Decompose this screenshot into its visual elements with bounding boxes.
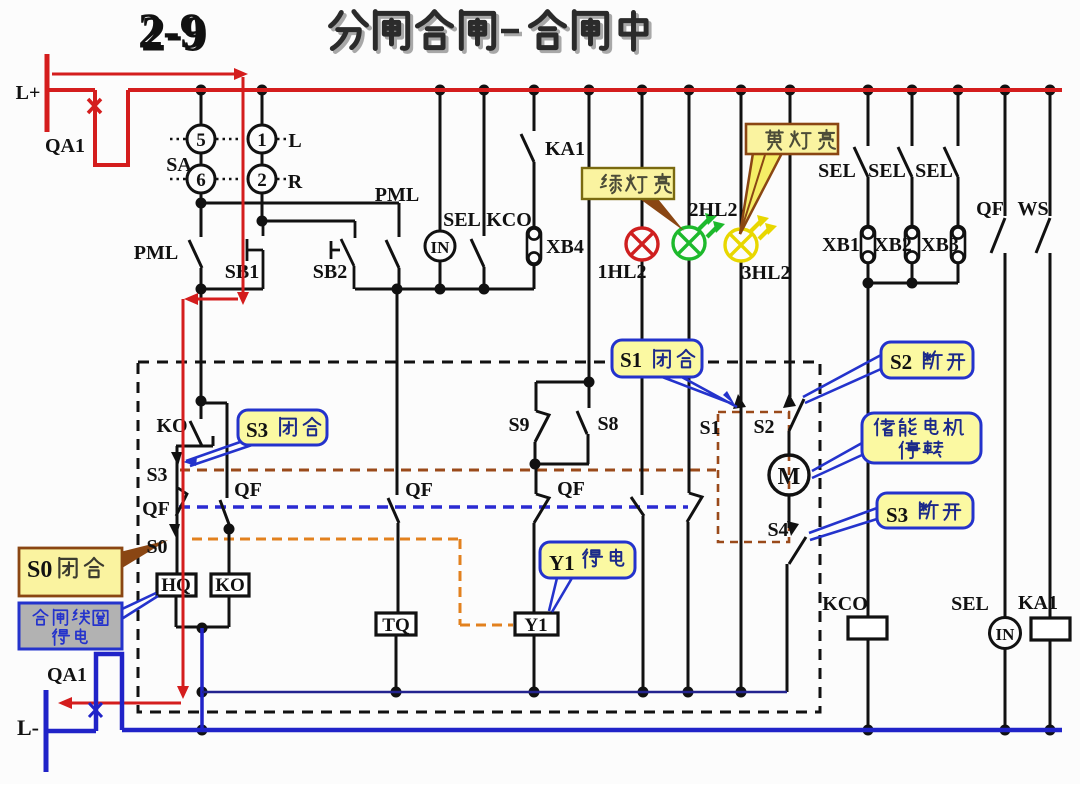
svg-text:PML: PML <box>375 184 419 206</box>
wire node6 to PML right <box>201 202 399 205</box>
svg-text:S1: S1 <box>699 417 720 439</box>
svg-text:M: M <box>778 464 801 490</box>
selector SA contact 6 <box>187 165 215 193</box>
svg-text:KO: KO <box>215 575 245 596</box>
svg-text:S0: S0 <box>27 557 52 583</box>
wire L- bus (blue) <box>122 728 1062 733</box>
selector SA contact 2 <box>248 165 276 193</box>
contact SEL 3 <box>944 90 958 225</box>
wire coil return link (blue) <box>200 628 204 730</box>
lamp 3HL2 (yellow, lit) <box>725 215 777 261</box>
svg-text:SA: SA <box>166 154 192 176</box>
svg-text:XB1: XB1 <box>822 234 860 256</box>
coil KCO <box>848 617 887 639</box>
contact PML left <box>189 203 202 289</box>
svg-text:IN: IN <box>431 238 451 257</box>
svg-text:L-: L- <box>17 715 39 740</box>
svg-text:KA1: KA1 <box>1018 592 1058 614</box>
coil KA1 <box>1031 618 1070 640</box>
wire 1-2 <box>261 153 264 165</box>
arrowhead S2 marker <box>783 393 796 408</box>
contact KO (aux) <box>190 401 202 446</box>
indicator IN (SEL right) <box>990 618 1021 649</box>
svg-text:QF: QF <box>976 198 1004 220</box>
svg-text:KCO: KCO <box>486 209 532 231</box>
svg-text:5: 5 <box>196 130 206 151</box>
arrowhead S1 closed marker <box>733 394 746 409</box>
brown dashed box (S1/S2 group) <box>718 412 789 542</box>
callout S2断开 <box>803 355 881 403</box>
fuse link XB2 <box>905 226 919 263</box>
wire KO coil branch top <box>201 403 227 498</box>
svg-text:S9: S9 <box>508 414 529 436</box>
wire S9 feed column <box>588 90 591 382</box>
blue dashed link QF row <box>179 505 688 508</box>
svg-text:TQ: TQ <box>382 615 409 636</box>
contact QF (HQ column, closed kink) <box>176 488 187 516</box>
wire red current arrow to QA1 (bottom) <box>70 702 181 705</box>
wire bus to SA circle 5 <box>200 90 203 125</box>
contact S4 (open) <box>787 537 806 692</box>
svg-text:SEL: SEL <box>915 160 953 182</box>
selector SA contact 5 <box>187 125 215 153</box>
svg-text:QF: QF <box>142 498 170 520</box>
svg-text:XB4: XB4 <box>546 236 584 258</box>
contact QF (Y1 column, closed) <box>534 464 549 613</box>
svg-text:KA1: KA1 <box>545 138 585 160</box>
svg-text:XB2: XB2 <box>874 234 912 256</box>
wire S9/S8 bottom bar <box>535 463 589 466</box>
svg-text:6: 6 <box>196 170 206 191</box>
svg-text:S1: S1 <box>620 348 642 372</box>
wire 6 down <box>200 193 203 203</box>
svg-text:3HL2: 3HL2 <box>742 262 791 284</box>
pushbutton SB1 <box>247 221 263 289</box>
breaker QA1 (bottom, blue detour) <box>96 654 122 731</box>
wire red current down to HQ coil <box>182 299 185 688</box>
callout S0闭合 <box>120 540 168 568</box>
red X mark on QA1 <box>88 99 101 113</box>
svg-text:S2: S2 <box>890 350 912 374</box>
svg-text:1HL2: 1HL2 <box>598 261 647 283</box>
callout 合闸线圈得电 <box>120 593 158 620</box>
wire PML bottom into sealed box <box>200 289 203 401</box>
contact QF (TQ column) <box>388 498 399 523</box>
svg-text:SB2: SB2 <box>313 261 347 283</box>
fuse link XB1 <box>861 226 875 263</box>
wire red current elbow to left column <box>190 298 238 301</box>
callout S3闭合 <box>186 441 252 466</box>
wire bottom junction rail <box>202 691 787 694</box>
svg-text:QF: QF <box>557 478 585 500</box>
wire 2HL2 down <box>688 259 691 493</box>
svg-text:QA1: QA1 <box>45 135 85 157</box>
svg-text:XB3: XB3 <box>921 234 959 256</box>
contact WS <box>1036 90 1050 618</box>
svg-text:SEL: SEL <box>443 209 481 231</box>
wire bus to S2 <box>789 90 792 397</box>
brown dashed link S3 row <box>180 469 716 472</box>
wire SB2..XB4 bottom rail <box>355 288 534 291</box>
svg-text:S8: S8 <box>597 413 618 435</box>
junction dots mid <box>196 198 207 209</box>
contact SEL 2 <box>898 90 912 225</box>
arrowhead S4 marker <box>787 521 799 536</box>
wire red current arrow (top) <box>52 73 234 76</box>
contact S9 (closed) <box>535 411 549 464</box>
svg-text:QF: QF <box>405 479 433 501</box>
svg-text:Y1: Y1 <box>549 551 575 575</box>
wire bus to lamp 1HL2 <box>641 90 644 228</box>
wire node2 to SB2 <box>262 220 355 223</box>
svg-text:S3: S3 <box>246 418 268 442</box>
junction dots bottom <box>197 623 208 634</box>
wire HQ/KO bottom bar <box>176 626 229 629</box>
SA dotted link row R <box>170 178 287 181</box>
callout S1闭合 <box>657 375 737 407</box>
wire M to S4 <box>788 495 791 528</box>
svg-text:IN: IN <box>996 625 1016 644</box>
callout 储能电机停转 <box>812 443 862 478</box>
fuse link XB3 <box>951 226 965 263</box>
svg-text:PML: PML <box>134 242 178 264</box>
svg-text:L: L <box>288 130 301 152</box>
svg-text:QF: QF <box>234 479 262 501</box>
wire SB1/PML bottom <box>201 288 263 291</box>
wire bus to lamp IN <box>439 90 442 231</box>
contact PML right <box>386 203 399 289</box>
wire 2 down <box>261 193 264 221</box>
svg-text:SEL: SEL <box>951 593 989 615</box>
lamp 2HL2 (green, lit) <box>673 213 725 259</box>
svg-text:L+: L+ <box>16 82 41 104</box>
junction dots top bus <box>196 85 207 96</box>
wire L+ to QA1 <box>47 88 95 92</box>
svg-text:KCO: KCO <box>822 593 868 615</box>
node L- terminal stub <box>44 690 49 772</box>
selector SA contact 1 <box>248 125 276 153</box>
svg-text:S4: S4 <box>767 519 788 541</box>
contact S3 (closed, arrow) <box>176 446 179 574</box>
wire 5-6 <box>200 153 203 165</box>
orange dashed link S0 to Y1 <box>192 539 513 625</box>
wire Y1 coil to junction <box>533 635 536 692</box>
contact QF (1HL2 column, open) <box>631 497 644 692</box>
wire bus to SA circle 1 <box>261 90 264 125</box>
coil HQ <box>157 574 196 596</box>
callout Y1得电 <box>549 578 572 612</box>
breaker QA1 (top, red detour) <box>95 90 128 165</box>
svg-text:SEL: SEL <box>868 160 906 182</box>
wire TQ column <box>396 289 399 495</box>
svg-text:S3: S3 <box>146 464 167 486</box>
wire bus to lamp 3HL2 <box>740 90 743 229</box>
contact QF (2HL2 column, closed) <box>687 493 702 692</box>
svg-text:WS: WS <box>1017 198 1048 220</box>
contact SEL 1 <box>854 90 868 225</box>
SA dotted link row L <box>170 138 287 141</box>
wire S9/S8 top bar <box>536 382 589 411</box>
svg-text:HQ: HQ <box>161 575 191 596</box>
svg-text:2: 2 <box>257 170 267 191</box>
callout 绿灯亮 <box>640 199 684 231</box>
contact S2 (open) <box>789 399 804 455</box>
callout 黄灯亮 <box>740 153 782 234</box>
contact S1 (closed) wire down <box>740 261 743 692</box>
svg-text:R: R <box>288 171 303 193</box>
callout S3断开 <box>809 508 877 540</box>
coil Y1 <box>515 613 558 635</box>
wire bus to lamp 2HL2 <box>688 90 691 227</box>
lamp 1HL2 (red) <box>626 228 658 260</box>
svg-text:2-9: 2-9 <box>138 2 205 58</box>
motor M <box>769 455 809 495</box>
contact SEL (KCO column) <box>471 90 484 289</box>
blue X mark on QA1 <box>89 701 102 719</box>
contact QF (KO column, open) <box>220 500 230 574</box>
node L+ terminal stub <box>45 54 50 132</box>
indicator IN (SEL) <box>425 231 455 261</box>
wire L- to QA1 <box>46 729 96 734</box>
fuse link XB4 <box>527 227 541 265</box>
svg-text:S3: S3 <box>886 503 908 527</box>
contact QF (right) <box>991 90 1005 618</box>
wire XB bar to KCO coil <box>867 283 870 617</box>
wire L+ bus (red) <box>128 88 1062 92</box>
svg-text:S2: S2 <box>753 416 774 438</box>
wire XB join bar <box>868 282 958 285</box>
coil KO <box>211 574 249 596</box>
contact S0 (closed, arrow) <box>169 524 180 538</box>
wire KO lower bar <box>176 436 213 446</box>
contact S8 (open) <box>577 382 589 464</box>
pushbutton SB2 <box>331 221 355 289</box>
svg-text:S0: S0 <box>146 536 167 558</box>
wire red current path down SB1 column <box>242 77 245 292</box>
sealed-box dashed border <box>138 362 820 712</box>
svg-text:SEL: SEL <box>818 160 856 182</box>
svg-text:Y1: Y1 <box>524 615 547 636</box>
svg-text:1: 1 <box>257 130 267 151</box>
svg-text:QA1: QA1 <box>47 664 87 686</box>
coil TQ <box>376 613 416 635</box>
contact KA1 <box>521 90 534 226</box>
wire 1HL2 down <box>641 260 644 495</box>
svg-text:2HL2: 2HL2 <box>689 199 738 221</box>
